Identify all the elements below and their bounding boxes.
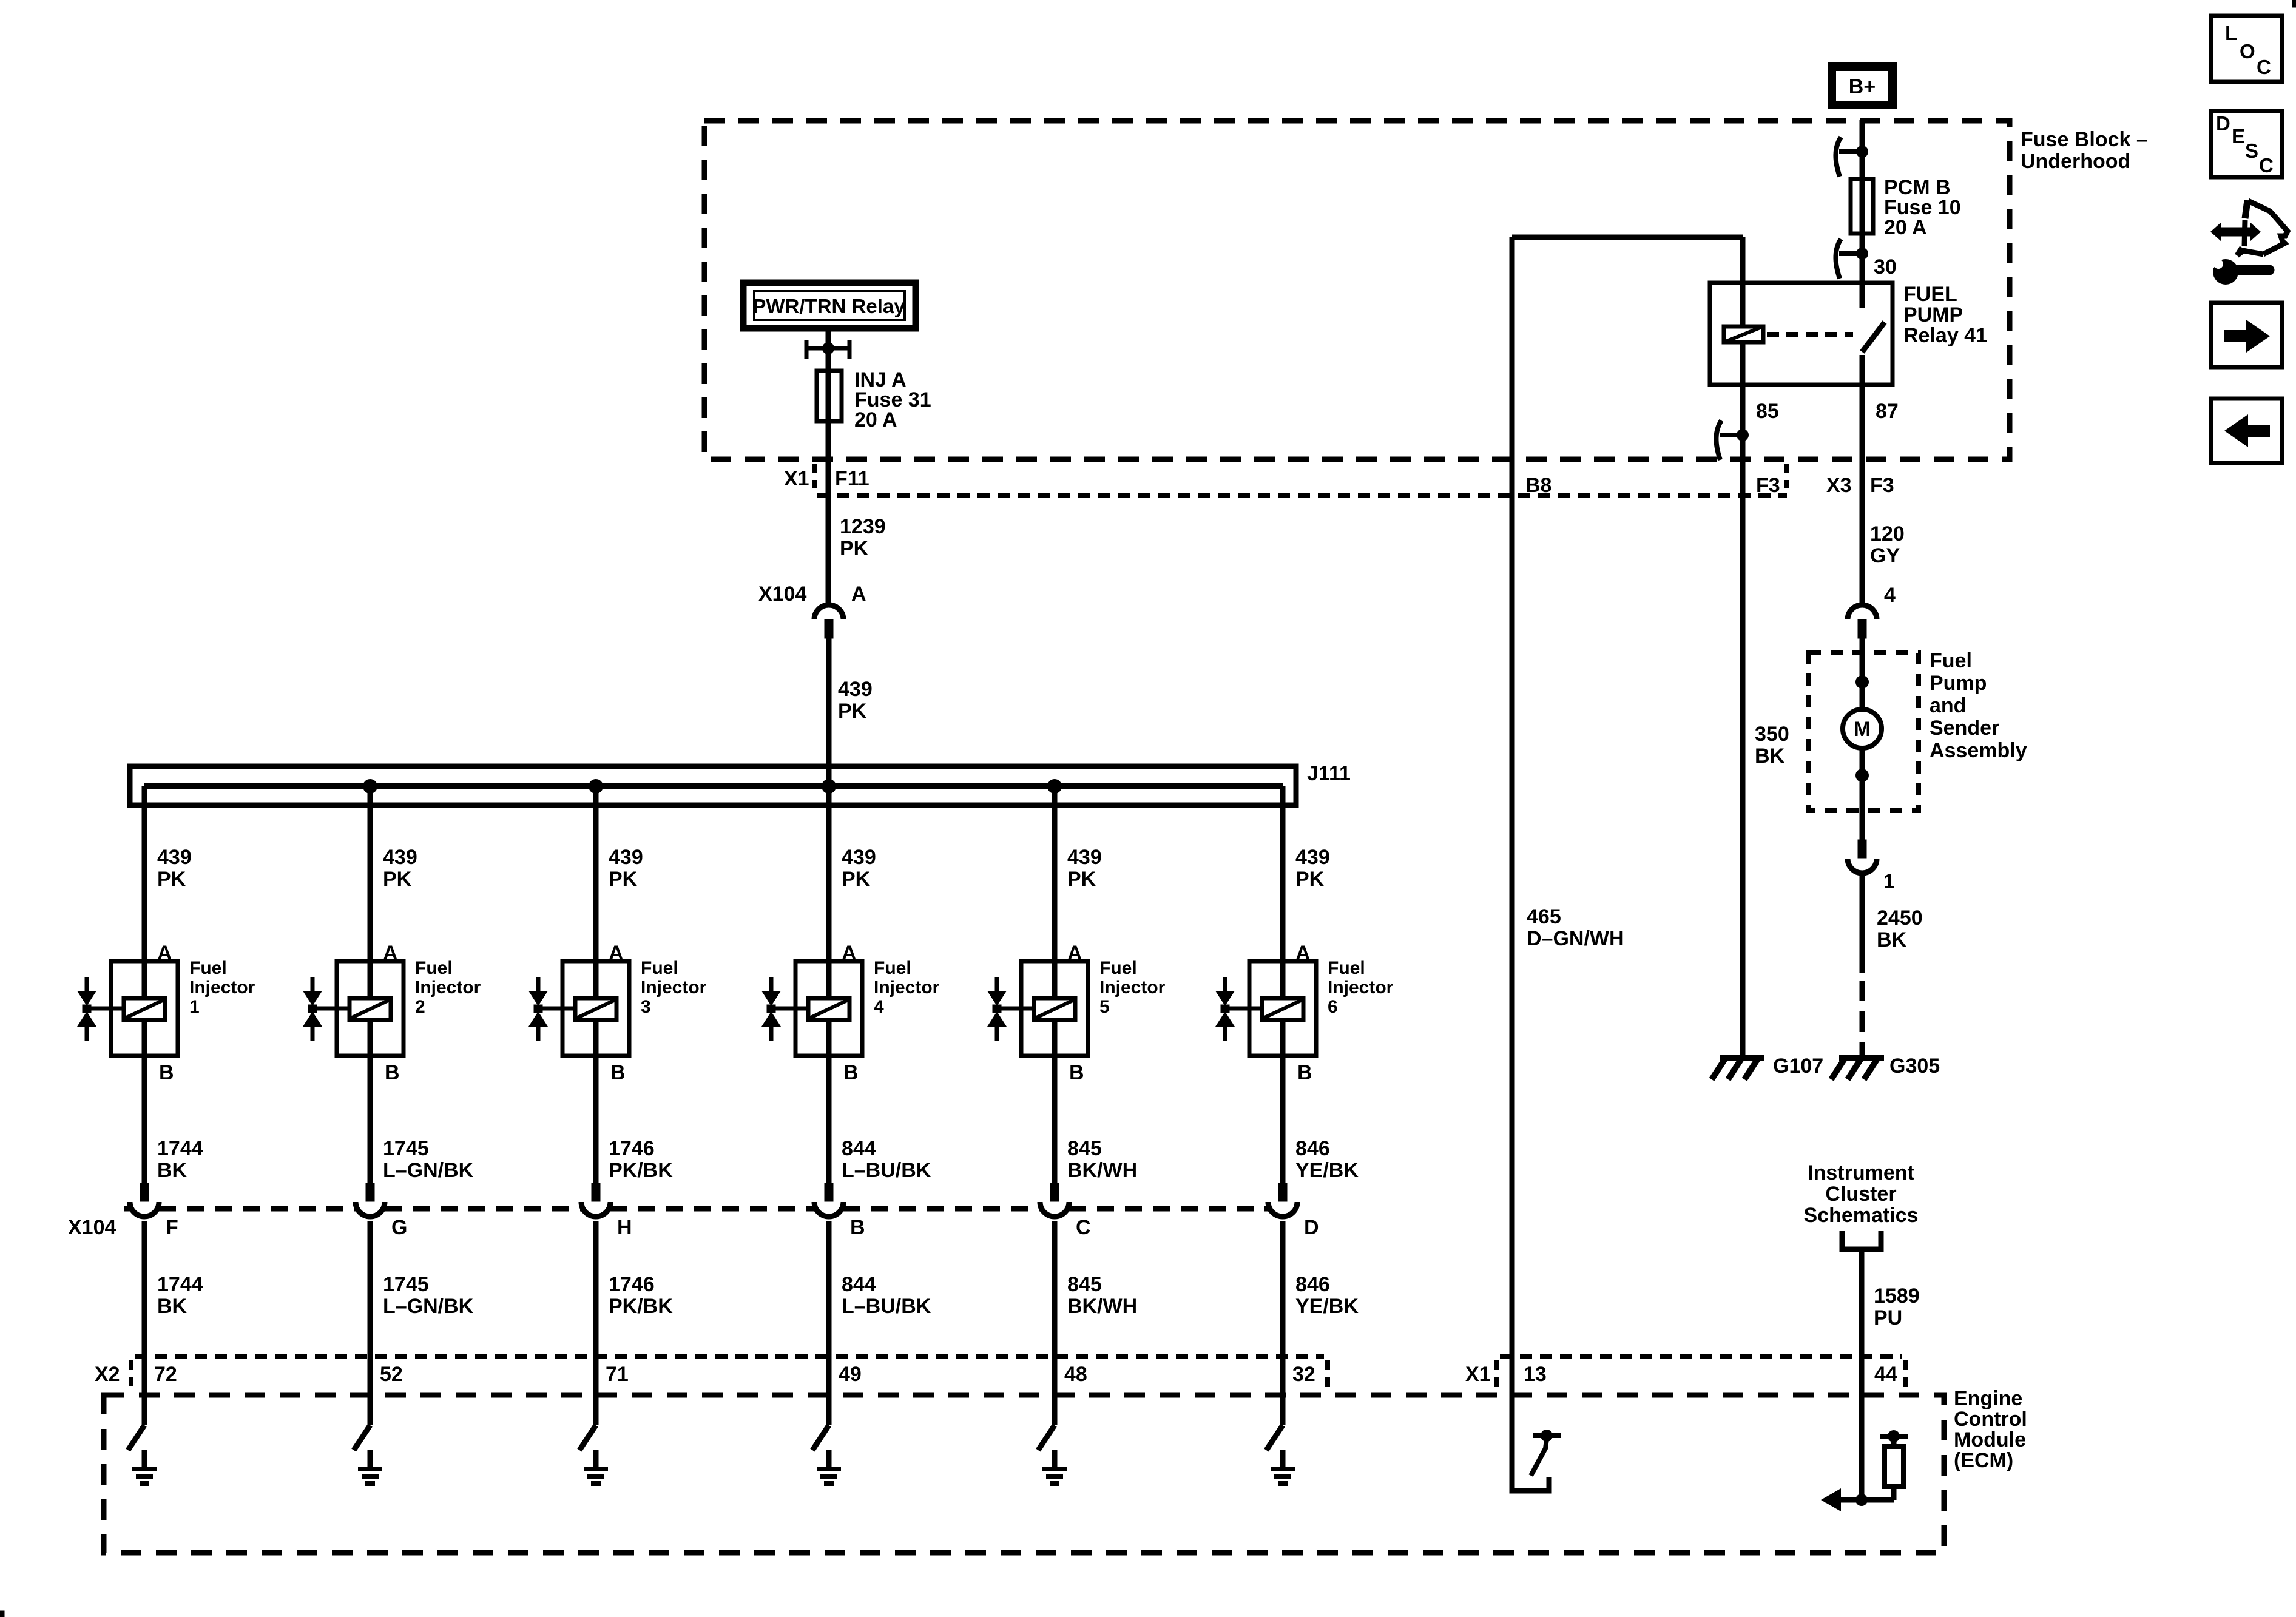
wire: 439 PK branch to fuel injector 2: [368, 786, 373, 965]
svg-text:GY: GY: [1870, 544, 1900, 567]
fuel injector 6 coil: [1262, 998, 1303, 1020]
svg-text:72: 72: [154, 1363, 177, 1386]
wire: circuit 120 GY relay 87 to fuel pump connector 4: [1860, 385, 1865, 606]
svg-text:D: D: [1304, 1216, 1319, 1239]
svg-text:BK: BK: [1755, 744, 1785, 768]
fuel injector 3 body: [562, 961, 629, 1056]
fuel pump motor M: [1843, 709, 1882, 748]
svg-text:845: 845: [1067, 1137, 1102, 1160]
svg-text:465: 465: [1527, 905, 1561, 928]
svg-text:Injector: Injector: [1099, 977, 1166, 998]
svg-text:Fuel: Fuel: [1930, 649, 1972, 672]
svg-text:BK: BK: [1877, 928, 1907, 951]
svg-text:Injector: Injector: [874, 977, 940, 998]
svg-text:Fuse Block –: Fuse Block –: [2021, 128, 2148, 151]
fuel injector 4 internal wire: [826, 961, 832, 1056]
ECM internal ground (injector 5): [1052, 1450, 1058, 1470]
svg-text:44: 44: [1874, 1363, 1897, 1386]
svg-text:1744: 1744: [157, 1137, 203, 1160]
relay control dashed link: [1767, 332, 1853, 337]
inline connector X104 terminal F: [140, 1183, 149, 1201]
svg-text:G: G: [391, 1216, 407, 1239]
svg-text:Fuel: Fuel: [415, 958, 453, 978]
svg-text:L–GN/BK: L–GN/BK: [383, 1295, 474, 1318]
svg-text:32: 32: [1292, 1363, 1315, 1386]
svg-text:350: 350: [1755, 723, 1789, 746]
svg-text:YE/BK: YE/BK: [1295, 1159, 1359, 1182]
icon: back arrow box: [2211, 399, 2282, 463]
wire: 439 PK branch to fuel injector 4: [826, 786, 832, 965]
wire: relay coil to ground G107 (350 BK): [1740, 237, 1746, 1058]
svg-text:PK: PK: [838, 700, 867, 723]
wire: circuit 1745 L–GN/BK injector 2 to connector X104: [368, 1056, 373, 1183]
svg-text:439: 439: [838, 678, 873, 701]
svg-text:1745: 1745: [383, 1137, 429, 1160]
svg-text:F3: F3: [1870, 474, 1894, 497]
svg-text:PK/BK: PK/BK: [609, 1295, 673, 1318]
resistor (ECM pull-up at pin 44): [1891, 1487, 1897, 1500]
ground G305: [1839, 1055, 1884, 1061]
connector X1 end separator: [1903, 1360, 1908, 1393]
svg-text:B8: B8: [1525, 474, 1551, 497]
svg-text:Relay 41: Relay 41: [1903, 324, 1987, 347]
icon: diagnostic tool (arrow and wrench): [2245, 200, 2247, 218]
fuel injector 6 internal wire: [1280, 961, 1286, 1056]
fuel pump and sender assembly dashed enclosure: [1809, 653, 1919, 811]
fuel injector 6 valve symbol: [1223, 977, 1227, 993]
svg-text:B: B: [850, 1216, 865, 1239]
svg-text:52: 52: [380, 1363, 403, 1386]
fuel injector 2 valve symbol: [311, 977, 315, 993]
fuse block - underhood (dashed enclosure): [704, 121, 2010, 459]
svg-text:1745: 1745: [383, 1273, 429, 1296]
svg-text:Injector: Injector: [415, 977, 481, 998]
svg-text:846: 846: [1295, 1273, 1330, 1296]
svg-text:4: 4: [1884, 584, 1896, 607]
svg-text:C: C: [2259, 154, 2274, 177]
wire: circuit 1746 PK/BK connector X104 to ECM pin 71: [593, 1221, 599, 1425]
fuse block clip on coil ground leg: [1716, 420, 1721, 460]
svg-text:M: M: [1854, 718, 1871, 741]
svg-text:845: 845: [1067, 1273, 1102, 1296]
junction on J111 bus (injector 4 tap): [822, 779, 836, 794]
svg-text:PK/BK: PK/BK: [609, 1159, 673, 1182]
svg-text:844: 844: [842, 1273, 876, 1296]
inline connector X104 terminal A: [814, 605, 843, 619]
svg-text:30: 30: [1874, 255, 1897, 279]
wire: relay coil feed horizontal run: [1512, 235, 1743, 240]
icon: forward arrow box: [2211, 303, 2282, 367]
relay switch contact 30-87: [1860, 283, 1865, 308]
icon: LOC box: [2211, 16, 2282, 82]
svg-text:PWR/TRN Relay: PWR/TRN Relay: [752, 295, 905, 317]
svg-text:X1: X1: [784, 467, 809, 490]
svg-text:PK: PK: [1067, 868, 1096, 891]
svg-text:Injector: Injector: [189, 977, 255, 998]
svg-text:Underhood: Underhood: [2021, 150, 2130, 173]
svg-text:5: 5: [1099, 997, 1110, 1017]
ECM low-side driver switch (injector 3): [579, 1425, 596, 1450]
svg-text:B: B: [385, 1061, 400, 1084]
svg-text:D: D: [2216, 112, 2230, 135]
wire: 439 PK branch to fuel injector 5: [1052, 786, 1058, 965]
fuse F31 (INJ A, 20 A): [817, 371, 842, 421]
fuel injector 5 valve symbol: [995, 977, 999, 993]
fuel injector 4 valve symbol: [769, 977, 774, 993]
svg-text:B+: B+: [1849, 75, 1876, 98]
svg-text:48: 48: [1064, 1363, 1087, 1386]
svg-text:E: E: [2232, 125, 2245, 147]
svg-text:Pump: Pump: [1930, 672, 1987, 695]
wire: circuit 845 BK/WH connector X104 to ECM pin 48: [1052, 1221, 1058, 1425]
svg-text:X104: X104: [758, 582, 806, 606]
wire: circuit 844 L–BU/BK injector 4 to connector X104: [826, 1056, 832, 1183]
svg-text:G107: G107: [1773, 1055, 1823, 1078]
icon: DESC box: [2211, 111, 2282, 177]
page mark bottom left: [0, 1611, 4, 1617]
J111 internal bus bar: [144, 783, 1283, 789]
svg-text:49: 49: [839, 1363, 862, 1386]
svg-text:B: B: [843, 1061, 859, 1084]
svg-text:1: 1: [189, 997, 200, 1017]
connector X2 end separator: [1325, 1360, 1330, 1393]
svg-text:439: 439: [157, 846, 192, 869]
svg-text:B: B: [1069, 1061, 1084, 1084]
svg-text:PK: PK: [609, 868, 638, 891]
connector separator F3: [1784, 464, 1789, 496]
ECM internal ground (injector 6): [1280, 1450, 1286, 1470]
svg-text:1589: 1589: [1874, 1284, 1920, 1308]
fuel injector 5 internal wire: [1052, 961, 1058, 1056]
ECM low-side driver switch (injector 6): [1266, 1425, 1283, 1450]
splice pack J111 housing: [130, 766, 1296, 805]
svg-text:1239: 1239: [840, 515, 886, 538]
svg-text:X1: X1: [1465, 1363, 1491, 1386]
ECM internal ground (injector 2): [368, 1450, 373, 1470]
ECM internal ground (injector 4): [826, 1450, 832, 1470]
relay K41 FUEL PUMP Relay box: [1710, 283, 1893, 385]
svg-text:BK/WH: BK/WH: [1067, 1295, 1137, 1318]
svg-text:PUMP: PUMP: [1903, 303, 1963, 326]
node: PWR/TRN Relay feed box: [743, 283, 916, 328]
ground G107: [1720, 1055, 1764, 1061]
connector X104 dashed row line: [124, 1206, 130, 1212]
connector X2 dotted line: [135, 1354, 1324, 1359]
connector X1 separator: [1494, 1360, 1499, 1393]
fuel injector 5 body: [1021, 961, 1088, 1056]
svg-text:439: 439: [609, 846, 643, 869]
wire: circuit 846 YE/BK connector X104 to ECM pin 32: [1280, 1221, 1286, 1425]
fuel injector 1 internal wire: [142, 961, 147, 1056]
svg-text:L: L: [2225, 22, 2237, 44]
svg-text:1746: 1746: [609, 1273, 655, 1296]
svg-text:844: 844: [842, 1137, 876, 1160]
svg-text:(ECM): (ECM): [1954, 1449, 2013, 1472]
inline connector fuel pump terminal 1: [1858, 840, 1866, 858]
svg-text:439: 439: [1295, 846, 1330, 869]
ECM low-side driver switch (injector 2): [354, 1425, 370, 1450]
svg-text:1746: 1746: [609, 1137, 655, 1160]
wire: circuit 1746 PK/BK injector 3 to connector X104: [593, 1056, 599, 1183]
fuel injector 2 coil: [349, 998, 391, 1020]
svg-text:S: S: [2245, 140, 2258, 162]
junction in fuel pump assembly (bottom): [1855, 769, 1869, 782]
svg-text:L–GN/BK: L–GN/BK: [383, 1159, 474, 1182]
wire: circuit 846 YE/BK injector 6 to connector X104: [1280, 1056, 1286, 1183]
fuel injector 2 internal wire: [368, 961, 373, 1056]
svg-text:13: 13: [1524, 1363, 1547, 1386]
svg-text:Sender: Sender: [1930, 717, 1999, 740]
ECM low-side driver switch (injector 4): [812, 1425, 829, 1450]
inline connector X104 terminal C: [1050, 1183, 1059, 1201]
inline connector X104 terminal D: [1278, 1183, 1287, 1201]
wire: PWR/TRN relay output to fuse 31: [826, 331, 831, 425]
svg-text:O: O: [2240, 40, 2255, 62]
svg-text:Instrument: Instrument: [1808, 1161, 1914, 1184]
svg-text:439: 439: [842, 846, 876, 869]
svg-text:120: 120: [1870, 522, 1905, 545]
svg-text:A: A: [851, 582, 866, 606]
wire: connector 4 to fuel pump: [1860, 638, 1865, 711]
fuel injector 3 internal wire: [593, 961, 599, 1056]
wire: circuit 1744 BK connector X104 to ECM pin 72: [142, 1221, 147, 1425]
svg-text:Module: Module: [1954, 1428, 2026, 1451]
fuel injector 1 coil: [124, 998, 165, 1020]
svg-text:Assembly: Assembly: [1930, 739, 2027, 762]
power node B+: [1832, 67, 1893, 105]
connector X2 separator: [129, 1360, 133, 1386]
svg-text:85: 85: [1756, 400, 1779, 423]
svg-text:Schematics: Schematics: [1804, 1204, 1919, 1227]
svg-text:1744: 1744: [157, 1273, 203, 1296]
wire: 439 PK branch to fuel injector 3: [593, 786, 599, 965]
wire: circuit 845 BK/WH injector 5 to connector X104: [1052, 1056, 1058, 1183]
svg-text:X104: X104: [68, 1216, 116, 1239]
svg-text:846: 846: [1295, 1137, 1330, 1160]
svg-text:439: 439: [383, 846, 417, 869]
wire: circuit 844 L–BU/BK connector X104 to ECM pin 49: [826, 1221, 832, 1425]
svg-text:Fuel: Fuel: [641, 958, 678, 978]
svg-text:B: B: [1297, 1061, 1312, 1084]
wire: circuit 465 vertical run to ECM pin 13: [1510, 237, 1515, 1490]
fuel injector 3 coil: [575, 998, 616, 1020]
fuse F10 (PCM B, 20 A): [1851, 179, 1873, 234]
svg-text:Engine: Engine: [1954, 1387, 2022, 1410]
svg-text:BK: BK: [157, 1159, 187, 1182]
wire: circuit 1744 BK injector 1 to connector X104: [142, 1056, 147, 1183]
Engine Control Module (ECM) dashed enclosure: [104, 1395, 1944, 1553]
ECM fuel level signal buffer at pin 44: [1825, 1497, 1894, 1503]
svg-text:F11: F11: [835, 467, 869, 490]
junction in fuel pump assembly (top): [1855, 675, 1869, 689]
ECM low-side driver switch (injector 5): [1038, 1425, 1055, 1450]
wire: fuel pump to connector 1: [1860, 746, 1865, 841]
svg-text:C: C: [1076, 1216, 1091, 1239]
svg-text:6: 6: [1328, 997, 1338, 1017]
svg-text:Fuel: Fuel: [189, 958, 227, 978]
fuel injector 4 body: [795, 961, 862, 1056]
wire: circuit 2450 BK connector 1 to ground G305: [1860, 872, 1865, 973]
fuse clip above PCM B fuse: [1835, 137, 1841, 177]
svg-text:X2: X2: [95, 1363, 120, 1386]
svg-text:Fuel: Fuel: [1328, 958, 1365, 978]
junction on J111 bus (injector 5 tap): [1047, 779, 1062, 794]
svg-text:FUEL: FUEL: [1903, 283, 1957, 306]
svg-text:Fuel: Fuel: [1099, 958, 1137, 978]
svg-text:20 A: 20 A: [1884, 216, 1927, 239]
fuel injector 3 valve symbol: [536, 977, 541, 993]
wire: B+ feed down to fuel pump relay pin 30: [1860, 120, 1865, 283]
connector X1 dotted line: [1500, 1354, 1902, 1359]
svg-text:1: 1: [1883, 870, 1895, 893]
svg-text:L–BU/BK: L–BU/BK: [842, 1159, 931, 1182]
relay coil: [1724, 326, 1763, 342]
fuel injector 5 coil: [1034, 998, 1075, 1020]
junction on J111 bus (injector 2 tap): [363, 779, 377, 794]
junction on J111 bus (injector 3 tap): [589, 779, 603, 794]
fuel injector 4 coil: [808, 998, 849, 1020]
svg-text:BK: BK: [157, 1295, 187, 1318]
svg-text:F3: F3: [1756, 474, 1780, 497]
svg-text:Injector: Injector: [1328, 977, 1394, 998]
svg-text:B: B: [610, 1061, 626, 1084]
svg-text:L–BU/BK: L–BU/BK: [842, 1295, 931, 1318]
svg-text:20 A: 20 A: [854, 408, 897, 431]
fuse block bottom connector dotted line: [817, 493, 1787, 498]
svg-text:PK: PK: [1295, 868, 1325, 891]
inline connector X104 terminal G: [366, 1183, 374, 1201]
svg-text:Fuel: Fuel: [874, 958, 911, 978]
inline connector X104 terminal B: [825, 1183, 833, 1201]
svg-text:BK/WH: BK/WH: [1067, 1159, 1137, 1182]
fuel injector 1 valve symbol: [85, 977, 89, 993]
wire: 439 PK branch to fuel injector 1: [142, 786, 147, 965]
svg-text:Injector: Injector: [641, 977, 707, 998]
wire: 439 PK branch to fuel injector 6: [1280, 786, 1286, 965]
svg-text:71: 71: [606, 1363, 629, 1386]
fuel injector 2 body: [337, 961, 403, 1056]
svg-text:F: F: [166, 1216, 178, 1239]
svg-text:PK: PK: [157, 868, 186, 891]
svg-text:J111: J111: [1307, 762, 1351, 785]
svg-text:D–GN/WH: D–GN/WH: [1527, 927, 1624, 950]
bus tap symbol with junction: [805, 340, 809, 359]
fuel injector 1 body: [111, 961, 178, 1056]
svg-text:and: and: [1930, 694, 1966, 717]
ECM low-side driver switch (injector 1): [128, 1425, 144, 1450]
ECM internal ground (injector 3): [593, 1450, 599, 1470]
svg-text:439: 439: [1067, 846, 1102, 869]
svg-text:C: C: [2257, 56, 2271, 78]
fuel injector 6 body: [1249, 961, 1316, 1056]
svg-text:87: 87: [1876, 400, 1899, 423]
wire: circuit 1239 PK fuse 31 to connector X104-A: [826, 421, 831, 606]
svg-text:PK: PK: [383, 868, 412, 891]
inline connector fuel pump terminal 4: [1848, 605, 1877, 619]
svg-text:Control: Control: [1954, 1408, 2027, 1431]
svg-text:PK: PK: [842, 868, 871, 891]
page mark top right: [2292, 0, 2296, 7]
wire: circuit 1589 PU into ECM pin 44: [1859, 1249, 1865, 1500]
svg-text:PK: PK: [840, 537, 869, 560]
ECM fuel pump relay driver at pin 13: [1512, 1357, 1549, 1491]
fuse clip below PCM B fuse: [1835, 239, 1841, 279]
ECM internal ground (injector 1): [142, 1450, 147, 1470]
svg-text:4: 4: [874, 997, 884, 1017]
wire: circuit 439 PK to splice pack J111: [826, 638, 832, 786]
svg-text:2: 2: [415, 997, 425, 1017]
wire: circuit 1745 L–GN/BK connector X104 to ECM pin 52: [368, 1221, 373, 1425]
svg-text:H: H: [617, 1216, 632, 1239]
svg-text:3: 3: [641, 997, 651, 1017]
svg-text:YE/BK: YE/BK: [1295, 1295, 1359, 1318]
svg-text:G305: G305: [1889, 1055, 1940, 1078]
svg-text:2450: 2450: [1877, 906, 1923, 930]
inline connector X104 terminal H: [592, 1183, 600, 1201]
svg-text:Cluster: Cluster: [1825, 1183, 1896, 1206]
svg-text:X3: X3: [1826, 474, 1852, 497]
svg-text:PU: PU: [1874, 1306, 1902, 1329]
connector separator X1: [812, 464, 817, 493]
svg-text:B: B: [159, 1061, 174, 1084]
